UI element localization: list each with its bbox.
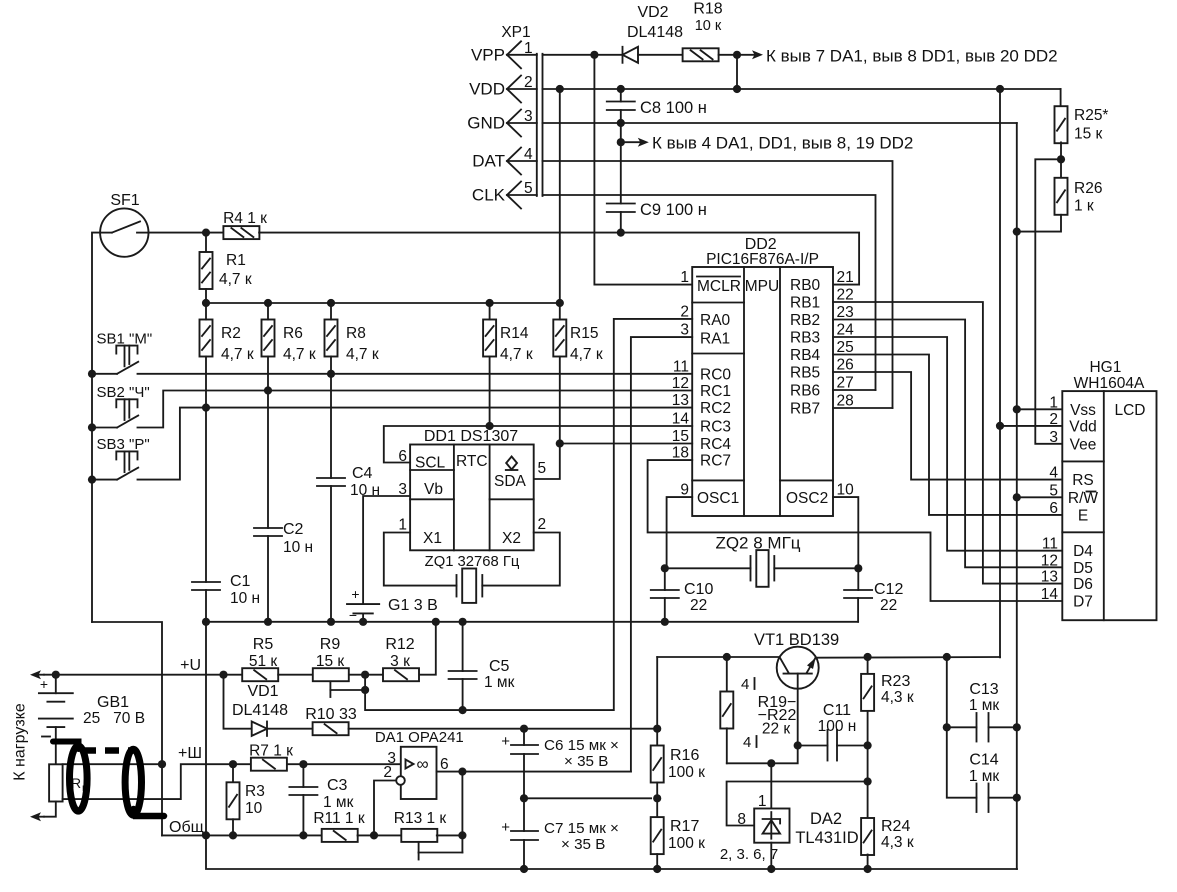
transistor VT1 — [777, 647, 819, 689]
svg-text:4,7 к: 4,7 к — [283, 346, 316, 363]
wire pin10 OSC2 — [833, 497, 858, 568]
wire Rsh bottom to load arrow — [44, 802, 56, 817]
svg-text:22: 22 — [690, 597, 707, 614]
svg-text:MPU: MPU — [745, 278, 779, 295]
svg-text:4: 4 — [743, 734, 751, 751]
svg-text:D7: D7 — [1073, 594, 1093, 611]
LCD HG1 body — [1062, 391, 1156, 620]
svg-text:C4: C4 — [352, 465, 373, 482]
wire SF1 to R4 row — [149, 232, 224, 234]
annotation thick minus lead — [53, 742, 79, 750]
wire R9 to R12 — [349, 674, 383, 676]
node bus/R15 — [556, 299, 564, 307]
node rail/C2 — [264, 618, 272, 626]
resistor R3 — [232, 764, 234, 782]
svg-text:4,7 к: 4,7 к — [219, 271, 252, 288]
svg-text:RB0: RB0 — [790, 277, 821, 294]
capacitor C14 — [976, 784, 978, 813]
svg-text:23: 23 — [837, 304, 854, 321]
svg-text:SB1 "М": SB1 "М" — [97, 330, 153, 347]
wire VT1 base down — [797, 674, 799, 746]
svg-text:C2: C2 — [283, 521, 304, 538]
node R15/pin15 SDA — [556, 439, 564, 447]
svg-text:22 к: 22 к — [762, 721, 791, 738]
wire VDD to R25 — [1060, 89, 1062, 107]
wire VPP row — [543, 54, 623, 56]
resistor R7 — [251, 758, 287, 771]
svg-text:WH1604A: WH1604A — [1074, 375, 1145, 392]
capacitor C6 electrolytic — [523, 729, 525, 745]
svg-text:1: 1 — [398, 517, 407, 534]
svg-text:13: 13 — [672, 392, 689, 409]
IC DA2 TL431 — [754, 809, 789, 843]
node R23/R24 row — [864, 777, 872, 785]
R13 wiper — [418, 842, 420, 853]
svg-text:RTC: RTC — [456, 453, 488, 470]
resistor R26 — [1055, 178, 1068, 215]
svg-text:11: 11 — [673, 358, 689, 375]
svg-text:6: 6 — [1049, 500, 1058, 517]
svg-text:100 н: 100 н — [818, 718, 857, 735]
svg-text:10: 10 — [245, 800, 263, 817]
annotation ellipse right — [125, 749, 141, 815]
svg-text:LCD: LCD — [1114, 402, 1145, 419]
XP1 connector bar — [536, 54, 538, 196]
svg-text:4: 4 — [741, 676, 749, 693]
resistor R18 — [683, 48, 719, 61]
node rail/Rsh top — [158, 760, 166, 768]
svg-text:SF1: SF1 — [110, 192, 139, 209]
svg-text:DD1 DS1307: DD1 DS1307 — [424, 428, 518, 445]
wire pin14 SCL row — [490, 425, 693, 427]
svg-text:R4 1 к: R4 1 к — [223, 210, 267, 227]
wire SB1 to pin11 row — [138, 373, 693, 375]
svg-text:6: 6 — [440, 756, 449, 773]
node rail/SB3 — [88, 476, 96, 484]
svg-text:26: 26 — [837, 357, 854, 374]
svg-text:К выв 7 DA1, выв 8 DD1, выв: К выв 7 DA1, выв 8 DD1, выв 20 DD2 — [766, 46, 1058, 65]
wire DD1 X1 pin1 — [384, 533, 457, 586]
svg-text:RC2: RC2 — [700, 400, 731, 417]
svg-text:R12: R12 — [385, 636, 414, 653]
wire RA1 pin3 — [631, 337, 692, 771]
resistor R9 trimmer — [313, 668, 349, 681]
svg-text:ZQ2 8 МГц: ZQ2 8 МГц — [715, 534, 800, 553]
wire R12 up to rail — [420, 622, 436, 675]
node GND/C13 — [1013, 723, 1021, 731]
node C13 left — [943, 723, 951, 731]
node Kv4 — [617, 138, 625, 146]
node ZQ2/OSC1 — [661, 564, 669, 572]
svg-text:9: 9 — [680, 482, 689, 499]
resistor R19-R22 — [726, 657, 728, 692]
svg-text:R23: R23 — [881, 673, 910, 690]
wire DA1 output — [437, 771, 631, 773]
svg-text:SDA: SDA — [494, 473, 527, 490]
wire C11 row — [798, 745, 828, 747]
svg-text:DA2: DA2 — [810, 810, 842, 828]
node Obsh/C3 — [299, 831, 307, 839]
svg-text:51 к: 51 к — [249, 653, 278, 670]
wire SB2 to pin12 row — [138, 391, 693, 428]
node +Sh/R3 — [229, 760, 237, 768]
svg-text:+Ш: +Ш — [178, 745, 202, 762]
node R6/pin12 — [264, 386, 272, 394]
svg-text:12: 12 — [672, 375, 689, 392]
svg-text:2: 2 — [1049, 411, 1058, 428]
node rail/C4 — [327, 618, 335, 626]
node VDD column — [996, 85, 1004, 93]
svg-text:2, 3. 6, 7: 2, 3. 6, 7 — [720, 846, 778, 863]
battery GB1 — [55, 675, 57, 694]
node rail/R12 — [432, 618, 440, 626]
resistor R12 — [383, 668, 419, 681]
node Obsh/R3 — [229, 831, 237, 839]
resistor R11 — [322, 829, 358, 842]
svg-text:12: 12 — [1041, 552, 1058, 569]
resistor R19-R22 — [720, 692, 733, 729]
wire SB3 to pin13 row — [138, 408, 693, 480]
wire R25 to R26 — [1060, 142, 1062, 177]
node bus/R1R2 — [202, 299, 210, 307]
svg-text:10 н: 10 н — [283, 539, 313, 556]
svg-text:Общ: Общ — [169, 819, 204, 836]
svg-text:Vss: Vss — [1070, 402, 1096, 419]
wire R8 column down — [330, 357, 332, 479]
node output/R13 — [458, 768, 466, 776]
resistor R13 trimmer — [401, 829, 437, 842]
wire R13 right feedback — [437, 834, 463, 836]
svg-text:R6: R6 — [283, 325, 303, 342]
svg-text:100 к: 100 к — [668, 764, 705, 781]
svg-text:D6: D6 — [1073, 576, 1093, 593]
svg-text:C11: C11 — [823, 702, 851, 719]
wire R7 to pin3 — [287, 763, 400, 765]
capacitor C13 — [946, 657, 948, 727]
DD1 SDA diamond — [506, 457, 517, 470]
annotation thick corner — [134, 809, 165, 816]
node emitter/C13 — [943, 653, 951, 661]
arrow to К выв 7 — [737, 54, 757, 56]
wire SF1 left to rail — [92, 233, 100, 622]
svg-text:4,3 к: 4,3 к — [881, 689, 914, 706]
svg-text:VPP: VPP — [471, 45, 505, 64]
capacitor C3 — [289, 786, 317, 788]
svg-text:OSC2: OSC2 — [786, 490, 828, 507]
wire RW pin5 — [1017, 496, 1063, 498]
svg-text:К выв 4 DA1, DD1, выв 8, 19: К выв 4 DA1, DD1, выв 8, 19 DD2 — [652, 134, 913, 153]
svg-text:+: + — [351, 586, 359, 602]
svg-text:CLK: CLK — [472, 186, 506, 205]
node rail/C10 — [661, 618, 669, 626]
svg-text:С8 100 н: С8 100 н — [640, 99, 707, 117]
node R14/SCL — [486, 422, 494, 430]
resistor R17 — [651, 817, 664, 854]
node bus/R8 — [327, 299, 335, 307]
node rail/C1 — [202, 618, 210, 626]
svg-text:1: 1 — [1049, 394, 1058, 411]
svg-text:× 35 В: × 35 В — [564, 753, 608, 770]
svg-text:HG1: HG1 — [1089, 359, 1121, 376]
svg-text:RB6: RB6 — [790, 383, 820, 400]
node GND/C8 — [617, 119, 625, 127]
node GND/R26 — [1013, 228, 1021, 236]
svg-text:RB7: RB7 — [790, 401, 820, 418]
capacitor C2 — [254, 527, 282, 529]
wire pin9 OSC1 — [667, 497, 693, 568]
svg-text:11: 11 — [1042, 536, 1058, 553]
svg-text:R16: R16 — [670, 747, 699, 764]
capacitor C5 — [449, 670, 477, 672]
svg-text:С9 100 н: С9 100 н — [640, 201, 707, 219]
wire R6 column down — [267, 357, 269, 529]
node base/C11 row — [794, 741, 802, 749]
resistor R4 — [223, 226, 259, 239]
svg-text:SB3 "Р": SB3 "Р" — [97, 436, 150, 453]
battery G1 — [347, 603, 379, 605]
wire R18 to arrow — [719, 54, 737, 56]
annotation thick dashed line — [82, 747, 137, 754]
resistor R10 — [313, 722, 349, 735]
resistor R1 column — [205, 233, 207, 252]
svg-text:15 к: 15 к — [1074, 126, 1103, 143]
annotation ellipse left — [70, 746, 88, 811]
svg-text:R15: R15 — [570, 325, 598, 342]
node VDD/C8 — [617, 85, 625, 93]
svg-text:X2: X2 — [502, 530, 521, 547]
capacitor C1 — [192, 581, 220, 583]
node DA2 pin1 tap — [767, 759, 775, 767]
svg-text:PIC16F876A-I/P: PIC16F876A-I/P — [706, 251, 819, 268]
svg-text:RS: RS — [1072, 472, 1094, 489]
resistor R14 — [483, 320, 496, 357]
wire G1 to rail — [362, 615, 364, 622]
svg-text:4,7 к: 4,7 к — [500, 346, 533, 363]
capacitor C12 — [844, 589, 872, 591]
svg-text:R17: R17 — [670, 818, 699, 835]
wire OSC1 col stub — [664, 568, 666, 590]
wire GND row — [543, 122, 1017, 124]
wire C13 col to C14 — [947, 727, 977, 797]
svg-text:DL4148: DL4148 — [232, 702, 288, 719]
svg-text:DAT: DAT — [472, 152, 505, 171]
svg-text:ZQ1 32768 Гц: ZQ1 32768 Гц — [425, 554, 520, 570]
svg-text:4,7 к: 4,7 к — [570, 346, 603, 363]
svg-text:Vdd: Vdd — [1069, 418, 1097, 435]
svg-text:C3: C3 — [327, 777, 348, 794]
crystal ZQ1 — [462, 569, 476, 603]
svg-text:DL4148: DL4148 — [627, 24, 683, 41]
svg-text:E: E — [1078, 507, 1088, 524]
svg-text:VD2: VD2 — [637, 4, 668, 21]
wire Vss pin1 — [1017, 408, 1063, 410]
svg-text:SCL: SCL — [415, 455, 446, 472]
wire Rsh bottom to +Sh — [63, 764, 251, 799]
svg-text:C12: C12 — [874, 581, 903, 598]
svg-text:RB1: RB1 — [790, 295, 820, 312]
wire pin28 RB7 stub — [833, 407, 893, 409]
svg-text:R2: R2 — [221, 325, 241, 342]
svg-text:10 к: 10 к — [695, 18, 722, 34]
svg-text:13: 13 — [1041, 569, 1058, 586]
diode VD1 — [252, 722, 267, 736]
svg-text:3: 3 — [1049, 429, 1058, 446]
node emitter/R23 — [864, 653, 872, 661]
wire DD1 X2 pin2 — [482, 533, 560, 586]
pushbutton SB3 — [116, 451, 137, 459]
svg-text:2: 2 — [383, 764, 392, 781]
switch SF1 — [100, 208, 148, 256]
svg-text:GND: GND — [467, 114, 505, 133]
node C1col/Obsh — [202, 831, 210, 839]
diode VD2 — [622, 47, 624, 63]
wire DD1 Vb pin3 — [363, 496, 410, 604]
svg-text:−: − — [349, 607, 357, 623]
svg-text:+: + — [501, 733, 510, 750]
wire VDD column down — [999, 89, 1001, 657]
resistor R1 — [200, 252, 213, 289]
svg-text:R11 1 к: R11 1 к — [313, 810, 365, 827]
svg-text:RA1: RA1 — [700, 331, 730, 348]
capacitor C11 — [827, 730, 829, 761]
node VDD/R15 — [556, 85, 564, 93]
wire junction down to C5 row — [365, 675, 463, 710]
wire R15/SDA column down — [559, 357, 561, 444]
wire CLK row — [543, 195, 876, 390]
svg-text:R10 33: R10 33 — [305, 706, 357, 723]
node bottom rail/R17 — [653, 865, 661, 873]
node R18 output — [733, 51, 741, 59]
svg-text:25: 25 — [837, 339, 854, 356]
capacitor C7 electrolytic — [523, 798, 525, 831]
wire C7 row to R16/R17 — [524, 797, 651, 799]
resistor R6 — [262, 320, 275, 357]
wire GB1 minus to Rsh — [55, 727, 57, 764]
IC DD2 body — [692, 267, 833, 516]
wire C6 bottom to C7 row — [523, 754, 525, 798]
wire VPP column down to MCLR — [594, 55, 692, 285]
svg-text:К нагрузке: К нагрузке — [12, 703, 29, 781]
wire left rail to ground rail — [92, 622, 162, 835]
node bottom rail/C7 — [520, 865, 528, 873]
svg-text:RB5: RB5 — [790, 365, 820, 382]
wire pin25 RB4 to E — [833, 355, 1062, 515]
node C5/row — [459, 706, 467, 714]
svg-text:RC4: RC4 — [700, 436, 731, 453]
node R16/R17 — [653, 794, 661, 802]
svg-text:14: 14 — [1041, 586, 1059, 603]
svg-text:1: 1 — [758, 793, 767, 810]
node C6 top — [520, 725, 528, 733]
svg-text:+: + — [40, 676, 48, 692]
resistor R2 — [200, 320, 213, 357]
node rail/SB1 — [88, 370, 96, 378]
node VDD/Vdd pin2 — [996, 422, 1004, 430]
svg-text:RC7: RC7 — [700, 453, 731, 470]
wire C8 column down — [620, 123, 622, 204]
svg-text:10: 10 — [837, 482, 855, 499]
wire C7 bottom to rail — [523, 840, 525, 869]
resistor R16 — [656, 657, 658, 746]
svg-text:5: 5 — [538, 460, 547, 477]
node R9/R12 junction — [361, 671, 369, 679]
resistor R24 — [861, 818, 874, 855]
svg-text:C1: C1 — [230, 573, 251, 590]
svg-text:27: 27 — [837, 375, 854, 392]
wire DD1 SCL pin6 — [384, 426, 490, 463]
svg-text:RB2: RB2 — [790, 312, 820, 329]
svg-text:R13 1 к: R13 1 к — [394, 810, 447, 827]
node GND/Vss — [1013, 405, 1021, 413]
node ZQ2/OSC2 — [854, 564, 862, 572]
svg-text:TL431ID: TL431ID — [795, 829, 858, 847]
svg-text:R25*: R25* — [1074, 107, 1108, 124]
svg-text:C14: C14 — [969, 752, 998, 769]
wire pin18 RC7 — [648, 460, 1063, 601]
svg-text:RC1: RC1 — [700, 383, 731, 400]
resistor R16 — [651, 746, 664, 783]
capacitor C9 — [607, 203, 635, 205]
node R13/output col — [458, 831, 466, 839]
resistor R25 — [1055, 106, 1068, 143]
pushbutton SB1 — [116, 346, 137, 354]
node rail/SB2 — [88, 423, 96, 431]
wire RA0 pin2 — [463, 319, 693, 710]
node bus/R14 — [486, 299, 494, 307]
svg-text:R14: R14 — [500, 325, 529, 342]
svg-text:VD1: VD1 — [247, 683, 278, 700]
wire +U to VD1 — [224, 675, 252, 729]
wire ref row to DA2 pin8 — [727, 782, 868, 826]
capacitor C3 — [302, 764, 304, 787]
arrow to К выв 4 — [621, 141, 643, 143]
shunt resistor Rsh — [49, 764, 63, 801]
svg-text:4,7 к: 4,7 к — [346, 346, 379, 363]
wire R10 to C6 row — [349, 728, 658, 730]
svg-text:1 мк: 1 мк — [484, 674, 515, 691]
svg-text:Vee: Vee — [1070, 436, 1097, 453]
R9 wiper — [329, 681, 331, 690]
wire Vdd pin2 — [1000, 425, 1062, 427]
node VDD/R18 — [733, 85, 741, 93]
svg-text:С6 15 мк ×: С6 15 мк × — [544, 737, 619, 754]
node bottom rail/DA2 — [767, 865, 775, 873]
node rail/C5 — [459, 618, 467, 626]
svg-text:R24: R24 — [881, 818, 910, 835]
svg-text:22: 22 — [880, 597, 897, 614]
svg-text:R8: R8 — [346, 325, 366, 342]
svg-text:1 к: 1 к — [1074, 198, 1094, 215]
svg-text:100 к: 100 к — [668, 835, 705, 852]
resistor R23 — [867, 657, 869, 673]
svg-text:G1 3 В: G1 3 В — [388, 597, 438, 614]
wire R2 column down — [205, 357, 207, 583]
wire junction to Vee column — [1035, 159, 1062, 444]
wire R5 to R9 — [278, 674, 312, 676]
node bottom rail/R24 — [864, 865, 872, 873]
node R11/R13/pin2 — [370, 831, 378, 839]
wire pin22 RB1 to D6 — [833, 302, 1062, 584]
svg-text:OSC1: OSC1 — [697, 490, 739, 507]
svg-text:28: 28 — [837, 393, 854, 410]
svg-text:4,7 к: 4,7 к — [221, 346, 254, 363]
svg-text:SB2 "Ч": SB2 "Ч" — [97, 384, 150, 401]
node C3 top — [299, 760, 307, 768]
node rail/G1 — [359, 618, 367, 626]
wire pin24 RB3 to D4 — [833, 337, 1062, 551]
svg-text:X1: X1 — [423, 530, 442, 547]
wire R14 column down to SCL row — [489, 357, 491, 427]
